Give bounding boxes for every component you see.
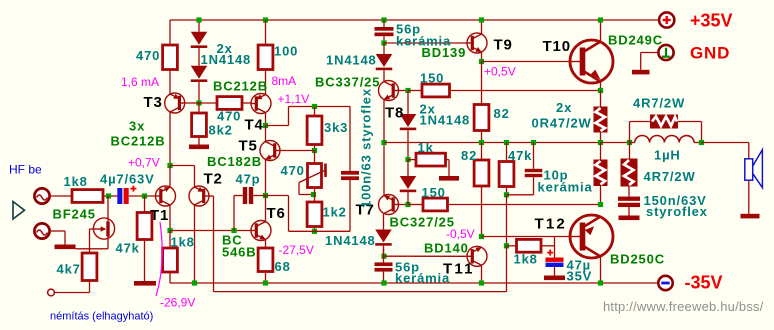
- label BC337/25: [315, 75, 380, 90]
- label T7: [356, 202, 375, 219]
- svg-text:47p: 47p: [236, 172, 261, 187]
- label 100: [274, 44, 298, 59]
- terminal mute (open): [48, 289, 55, 296]
- transistor T5 BC182B: [260, 141, 280, 161]
- resistor 4R7/2W (top, with loop): [630, 115, 702, 143]
- label 4k7: [57, 262, 81, 277]
- wire node to T6 collector: [265, 196, 267, 222]
- label 68: [275, 259, 291, 274]
- wire T4 node right: [266, 125, 289, 127]
- svg-text:47k: 47k: [116, 241, 140, 256]
- label T12: [535, 216, 567, 233]
- node 1k8 feedback: [504, 243, 509, 248]
- svg-text:1N4148: 1N4148: [201, 52, 252, 67]
- transistor T9 BD139: [467, 33, 487, 53]
- terminal input shield: [34, 223, 49, 238]
- ground below 8k2: [189, 137, 209, 150]
- wire T4 collector to node: [265, 113, 267, 126]
- wire to speaker: [702, 142, 749, 144]
- svg-text:47k: 47k: [508, 148, 532, 163]
- node T7 base junction: [405, 202, 410, 207]
- svg-text:-35V: -35V: [685, 273, 723, 293]
- resistor 100: [258, 20, 273, 70]
- wire T3 collector down: [169, 112, 171, 166]
- wire node to T5 collector: [265, 126, 267, 142]
- svg-text:BD139: BD139: [422, 45, 467, 60]
- wire up to 3k3 level: [288, 107, 290, 126]
- svg-text:BC337/25: BC337/25: [315, 75, 380, 90]
- wire T11 collector down: [481, 266, 483, 283]
- node rail T12: [598, 280, 603, 285]
- label 150n/63V: [644, 193, 707, 208]
- label 3x: [129, 119, 145, 134]
- label 2x 0R47: [556, 100, 572, 115]
- label 150 top: [420, 71, 444, 86]
- resistor 47k (right): [499, 143, 514, 187]
- resistor 470 (T3-T4): [199, 97, 251, 110]
- svg-text:546B: 546B: [222, 245, 256, 260]
- wire bias bus: [384, 142, 601, 144]
- terminal GND: [641, 45, 674, 70]
- svg-text:BF245: BF245: [53, 207, 96, 222]
- label T10: [543, 38, 571, 55]
- ground below 1k: [439, 176, 459, 181]
- transistor T4 BC212B: [251, 94, 271, 114]
- wire T10 base run: [482, 61, 571, 63]
- node T9 emitter node: [479, 59, 484, 64]
- label nemitas: [50, 311, 153, 323]
- wire D1-D2: [198, 48, 200, 66]
- transistor T12 BD250C: [570, 215, 613, 258]
- resistor 47k (input): [137, 196, 152, 281]
- svg-text:1k8: 1k8: [64, 174, 88, 189]
- label styroflex: [646, 204, 708, 219]
- svg-text:82: 82: [494, 106, 510, 121]
- label 470 trimmer: [281, 163, 305, 178]
- resistor 150 (top): [408, 84, 601, 97]
- svg-text:1k8: 1k8: [171, 235, 195, 250]
- label 82 upper: [494, 106, 510, 121]
- wire down to comp bus: [288, 196, 290, 232]
- wire junction to T1 emitter: [169, 166, 171, 188]
- label +0,5V: [484, 65, 516, 79]
- label BD249C: [608, 33, 663, 48]
- label url: [603, 299, 764, 314]
- wire T2 emitter link: [170, 165, 195, 167]
- label BC327/25: [390, 215, 455, 230]
- label 47u: [567, 258, 592, 273]
- svg-text:470: 470: [217, 109, 241, 124]
- svg-text:kerámia: kerámia: [395, 271, 450, 286]
- trimmer 470: [299, 151, 327, 195]
- wire T8 base: [399, 90, 409, 92]
- label -35V: [685, 273, 723, 293]
- label 470 mid: [217, 109, 241, 124]
- label GND: [690, 44, 730, 63]
- power resistor 0R47/2W (lower): [594, 143, 608, 205]
- node 3k3 top junction: [312, 104, 317, 109]
- wire T12 base run: [482, 236, 571, 238]
- label -27,5V: [279, 243, 314, 257]
- wire T1 collector down: [169, 205, 171, 231]
- node T1 collector node: [167, 228, 172, 233]
- node T12 emitter junction: [598, 202, 603, 207]
- svg-text:4k7: 4k7: [57, 262, 81, 277]
- node VAS top node (47p): [263, 193, 268, 198]
- svg-text:3k3: 3k3: [324, 120, 348, 135]
- label 1k: [418, 140, 434, 155]
- resistor 1k8 (right): [507, 239, 555, 252]
- capacitor 10p: [525, 143, 543, 178]
- wire 4k7 to mute terminal: [55, 281, 90, 293]
- node inductor left: [627, 140, 632, 145]
- svg-text:-26,9V: -26,9V: [160, 296, 195, 310]
- wire rail to D1: [198, 20, 200, 32]
- label BC212B (input trio): [111, 134, 166, 149]
- label T1: [150, 207, 169, 224]
- label HF be: [9, 163, 42, 177]
- node 47k input tap: [142, 193, 147, 198]
- label 546B: [222, 245, 256, 260]
- label 470 left: [136, 48, 160, 63]
- label BC212B (T4): [213, 79, 268, 94]
- node trimmer bottom junction: [311, 192, 316, 197]
- inductor 1uH: [630, 136, 702, 143]
- label T11: [443, 261, 475, 278]
- svg-text:BD249C: BD249C: [608, 33, 663, 48]
- diode D1 1N4148: [191, 32, 208, 48]
- svg-text:http://www.freeweb.hu/bss/: http://www.freeweb.hu/bss/: [603, 299, 764, 314]
- node T11 base node: [381, 254, 386, 259]
- label 1N4148 upper mid: [326, 53, 377, 68]
- label 47k right: [508, 148, 532, 163]
- label BD140: [424, 241, 469, 256]
- wire 3k3 top run: [289, 106, 351, 108]
- label 3k3: [324, 120, 348, 135]
- node rail T11: [479, 280, 484, 285]
- node 47p tap: [231, 228, 236, 233]
- svg-text:BC212B: BC212B: [213, 79, 268, 94]
- svg-text:0R47/2W: 0R47/2W: [532, 116, 592, 131]
- svg-text:+35V: +35V: [690, 11, 733, 31]
- wire T12 collector down: [600, 258, 602, 284]
- label T5: [239, 138, 258, 155]
- transistor T7 BC327/25: [379, 195, 399, 215]
- capacitor 56p (bottom): [375, 249, 393, 284]
- svg-text:150: 150: [422, 185, 446, 200]
- wire T10 emitter down: [600, 83, 602, 91]
- label 10p: [544, 168, 569, 183]
- svg-text:35V: 35V: [567, 269, 593, 284]
- resistor 68: [258, 240, 273, 283]
- ground below speaker: [741, 214, 760, 219]
- label 0R47/2W: [532, 116, 592, 131]
- node bus 47k: [504, 140, 509, 145]
- node rail-56p junction: [381, 17, 386, 22]
- label 47p: [236, 172, 261, 187]
- label 1N4148 (left diodes): [201, 52, 252, 67]
- resistor 150 (bottom): [408, 198, 601, 211]
- svg-text:470: 470: [136, 48, 160, 63]
- svg-text:T2: T2: [204, 171, 223, 188]
- node 1k2 bottom junction: [312, 229, 317, 234]
- svg-text:BD250C: BD250C: [610, 252, 665, 267]
- label 1,6 mA: [121, 75, 159, 89]
- wire T2 emitter drop: [194, 166, 196, 188]
- svg-text:100: 100: [274, 44, 298, 59]
- wire to 100n top: [349, 107, 351, 172]
- speaker: [745, 143, 763, 214]
- label 35V: [567, 269, 593, 284]
- svg-text:BD140: BD140: [424, 241, 469, 256]
- svg-text:68: 68: [275, 259, 291, 274]
- capacitor 150n/63V styroflex: [618, 197, 640, 216]
- wire D2 to T3 base node: [198, 82, 200, 103]
- wire T6 base run: [170, 230, 251, 232]
- node bias bus start: [381, 140, 386, 145]
- label T2: [204, 171, 223, 188]
- transistor BF245 JFET: [76, 196, 115, 249]
- label 4R7/2W top: [633, 96, 685, 111]
- svg-text:T6: T6: [267, 205, 286, 222]
- svg-text:1k2: 1k2: [323, 205, 347, 220]
- svg-text:kerámia: kerámia: [538, 180, 593, 195]
- svg-text:3x: 3x: [129, 119, 145, 134]
- svg-text:T12: T12: [535, 216, 567, 233]
- ground below 150n: [619, 216, 640, 221]
- svg-text:+0,5V: +0,5V: [484, 65, 516, 79]
- wire 100n bottom lead: [349, 180, 351, 231]
- terminal +35V: [659, 12, 674, 27]
- wire output bus: [601, 142, 631, 144]
- node T9 base node: [381, 40, 386, 45]
- wire T5 base: [280, 150, 315, 152]
- label T3: [144, 94, 163, 111]
- resistor 4k7: [82, 253, 97, 281]
- resistor 1k8 (T1 load): [163, 231, 178, 284]
- wire feedback run bottom: [214, 291, 507, 293]
- svg-text:1k8: 1k8: [514, 252, 538, 267]
- resistor 82 (lower): [474, 143, 489, 237]
- svg-text:T8: T8: [385, 105, 404, 122]
- label T4: [245, 117, 264, 134]
- svg-text:T4: T4: [245, 117, 264, 134]
- label 1N4148 lower mid: [325, 233, 376, 248]
- svg-text:+1,1V: +1,1V: [278, 92, 310, 106]
- capacitor 47p: [234, 187, 266, 204]
- label 100n/63 styroflex vertical: [359, 88, 374, 208]
- label 1N4148 mid diodes: [420, 113, 471, 128]
- svg-text:4µ7/63V: 4µ7/63V: [100, 172, 155, 187]
- wire T2 base right: [209, 195, 214, 197]
- svg-text:1,6 mA: 1,6 mA: [121, 75, 159, 89]
- resistor 1k2: [307, 188, 322, 232]
- wire 47p drop: [233, 196, 235, 231]
- label 1uH: [654, 148, 681, 163]
- wire 47p node right: [266, 195, 289, 197]
- transistor T8 BC337/25: [379, 81, 399, 101]
- svg-text:BC212B: BC212B: [111, 134, 166, 149]
- transistor T1 BC212B: [156, 186, 176, 206]
- label 1k8 T1 load: [171, 235, 195, 250]
- node input-cap: [106, 193, 111, 198]
- transistor T2 BC212B: [189, 186, 209, 206]
- node T8 base junction: [405, 88, 410, 93]
- node output bus start: [598, 140, 603, 145]
- svg-text:némítás (elhagyható): némítás (elhagyható): [50, 311, 153, 323]
- wire T10 collector up: [600, 20, 602, 41]
- svg-text:1N4148: 1N4148: [326, 53, 377, 68]
- svg-text:+0,7V: +0,7V: [128, 156, 160, 170]
- wire T9 emitter down: [481, 53, 483, 62]
- svg-text:HF be: HF be: [9, 163, 42, 177]
- svg-text:4R7/2W: 4R7/2W: [633, 96, 685, 111]
- wire T7 base: [399, 204, 409, 206]
- node T2 collector rail: [192, 280, 197, 285]
- wire feedback column: [506, 195, 508, 246]
- wire 10p hook: [507, 178, 534, 195]
- node rail-diode junction: [196, 17, 201, 22]
- svg-text:2x: 2x: [556, 100, 572, 115]
- svg-text:-27,5V: -27,5V: [279, 243, 314, 257]
- label BD250C: [610, 252, 665, 267]
- wire R470 to T3 emitter: [169, 70, 171, 95]
- svg-text:1N4148: 1N4148: [420, 113, 471, 128]
- svg-text:T3: T3: [144, 94, 163, 111]
- node bus 82: [479, 140, 484, 145]
- svg-text:470: 470: [281, 163, 305, 178]
- transistor T3 BC212B: [165, 93, 185, 113]
- resistor 470 (left): [163, 45, 178, 70]
- ground below 47k input: [134, 281, 156, 286]
- resistor 4k7 with mute switch wires: [90, 229, 93, 253]
- label 2x (left diodes): [217, 41, 233, 56]
- node T1/T2 emitters junction: [167, 163, 172, 168]
- svg-text:-0,5V: -0,5V: [446, 227, 475, 241]
- svg-text:T11: T11: [443, 261, 475, 278]
- node inductor right: [699, 140, 704, 145]
- label 56p bottom: [395, 260, 420, 275]
- node bus 10p: [531, 140, 536, 145]
- transistor T11 BD140: [467, 246, 487, 266]
- wire feedback to bottom: [506, 246, 508, 292]
- transistor T6 BC546B: [251, 221, 271, 241]
- ground bar for GND terminal: [632, 70, 650, 75]
- svg-text:1k: 1k: [418, 140, 434, 155]
- svg-text:8k2: 8k2: [209, 123, 233, 138]
- diode 1N4148 (T8 collector): [376, 43, 393, 81]
- wire T3 base: [185, 102, 199, 104]
- svg-text:82: 82: [461, 148, 477, 163]
- power resistor 0R47/2W (upper): [594, 91, 608, 143]
- diode 1N4148 (below T7): [375, 214, 392, 256]
- node 56p bottom rail: [381, 280, 386, 285]
- svg-text:GND: GND: [690, 44, 730, 63]
- label BD139: [422, 45, 467, 60]
- wire comp bus: [289, 230, 351, 232]
- label 1k8 right: [514, 252, 538, 267]
- label +0,7V: [128, 156, 160, 170]
- label -0,5V: [446, 227, 475, 241]
- node 10p-47k: [504, 192, 509, 197]
- diode D4 1N4148: [400, 91, 417, 160]
- capacitor 4u7/63V electrolytic: [117, 186, 155, 204]
- capacitor 47u/35V electrolytic: [546, 250, 564, 276]
- wire +35V top rail: [170, 19, 659, 21]
- wire feedback drop: [213, 196, 215, 292]
- label 47k input: [116, 241, 140, 256]
- wire rail to R 470 left: [169, 20, 171, 45]
- terminal input signal: [34, 188, 49, 203]
- resistor 1k: [408, 153, 446, 166]
- leader line -26,9V: [156, 222, 162, 296]
- resistor 8k2: [192, 103, 207, 137]
- label 2x mid diodes: [420, 102, 436, 117]
- label BF245: [53, 207, 96, 222]
- node T3 base node: [196, 100, 201, 105]
- capacitor 100n/63 styroflex: [341, 171, 359, 180]
- wire 47k bottom: [506, 187, 508, 195]
- node rail T10: [598, 17, 603, 22]
- resistor 82 (upper): [474, 62, 489, 143]
- node 1k tap: [405, 157, 410, 162]
- resistor 3k3: [307, 107, 322, 151]
- ground below 47u: [544, 276, 565, 281]
- label 82 lower: [461, 148, 477, 163]
- label T9: [494, 37, 513, 54]
- svg-text:T9: T9: [494, 37, 513, 54]
- svg-text:styroflex: styroflex: [646, 204, 708, 219]
- svg-text:8mA: 8mA: [272, 74, 297, 88]
- svg-text:BC182B: BC182B: [207, 154, 262, 169]
- diode D5 1N4148: [400, 160, 417, 205]
- node 68 bottom rail: [263, 280, 268, 285]
- label BC: [222, 233, 242, 248]
- label 8mA: [272, 74, 297, 88]
- transistor T10 BD249C: [570, 40, 613, 83]
- label +1,1V: [278, 92, 310, 106]
- resistor 4R7/2W (vertical): [621, 143, 638, 197]
- node rail-100 junction: [263, 17, 268, 22]
- wire shield to ground: [50, 231, 65, 245]
- input arrow symbol: [13, 202, 25, 220]
- ground input shield: [55, 245, 76, 250]
- wire 1k to ground: [446, 160, 450, 176]
- label T8: [385, 105, 404, 122]
- wire -35V bottom rail: [170, 282, 658, 284]
- label BC182B: [207, 154, 262, 169]
- wire T11 base run: [384, 255, 467, 257]
- label 150 bottom: [422, 185, 446, 200]
- svg-text:T5: T5: [239, 138, 258, 155]
- label -26,9V: [160, 296, 195, 310]
- label 1k2: [323, 205, 347, 220]
- diode D2 1N4148: [191, 66, 208, 82]
- node rail T9: [479, 17, 484, 22]
- node T4 collector node: [263, 123, 268, 128]
- svg-text:T1: T1: [150, 207, 169, 224]
- label T6: [267, 205, 286, 222]
- svg-text:4R7/2W: 4R7/2W: [644, 169, 696, 184]
- wire T9 base run: [384, 42, 467, 44]
- wire T8 emitter down: [383, 100, 385, 195]
- wire T5 emitter to 47p node: [265, 160, 267, 196]
- label 1k8 input: [64, 174, 88, 189]
- svg-text:1N4148: 1N4148: [325, 233, 376, 248]
- label 4u7/63V: [100, 172, 155, 187]
- label 56p top: [396, 22, 421, 37]
- wire 47u riser: [554, 237, 556, 258]
